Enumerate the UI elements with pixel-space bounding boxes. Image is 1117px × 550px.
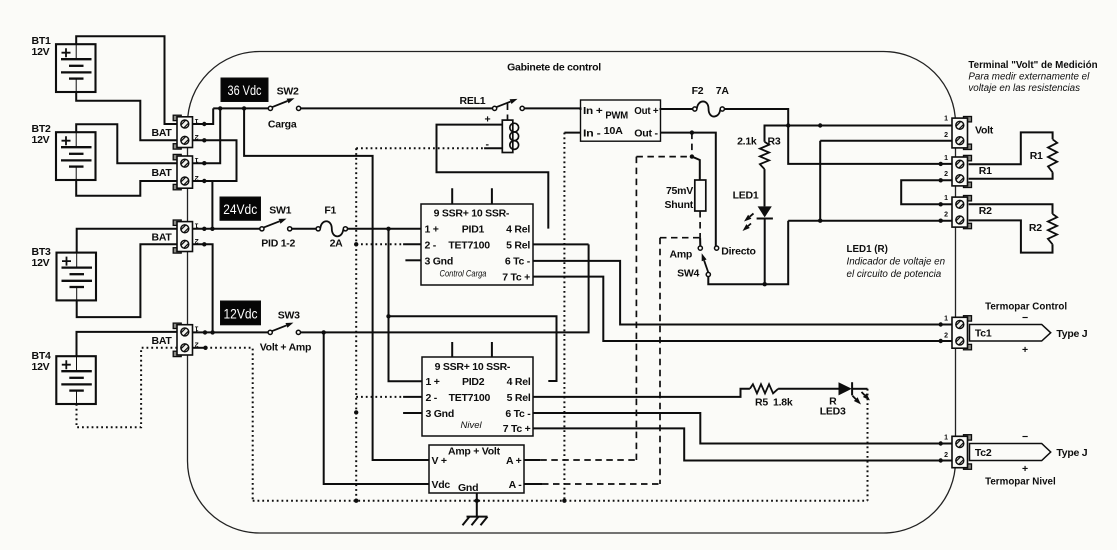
svg-text:2: 2 <box>944 132 948 139</box>
svg-text:Para medir externamente el: Para medir externamente el <box>968 72 1090 83</box>
svg-text:6 Tc -: 6 Tc - <box>505 256 531 268</box>
wire PID2 pin5 to R5 <box>533 389 750 397</box>
svg-text:BAT: BAT <box>152 232 173 244</box>
svg-text:Carga: Carga <box>268 119 297 131</box>
wire BT3- to BAT3-2 <box>77 244 179 317</box>
thermocouple Type J nivel <box>970 444 1051 461</box>
svg-text:1: 1 <box>195 325 199 332</box>
svg-text:2.1k: 2.1k <box>737 136 757 148</box>
svg-text:2: 2 <box>195 341 199 348</box>
wire junction to R1-1 <box>788 126 953 164</box>
wire 36V rail to SW2 <box>213 107 268 109</box>
svg-text:2: 2 <box>195 133 199 140</box>
svg-text:12Vdc: 12Vdc <box>224 307 258 322</box>
svg-text:1: 1 <box>195 222 199 229</box>
module PID1 TET7100 Control Carga <box>421 204 533 285</box>
wire dotted LED3 return <box>867 389 869 501</box>
wire BAT1-1 to 36V rail <box>193 108 214 124</box>
svg-text:9 SSR+ 10 SSR-: 9 SSR+ 10 SSR- <box>435 361 511 373</box>
svg-text:BAT: BAT <box>152 127 173 139</box>
svg-text:4 Rel: 4 Rel <box>506 224 530 236</box>
wire PID1 pin5 to 12V line <box>533 243 589 245</box>
svg-text:SW2: SW2 <box>277 86 299 98</box>
terminal block BAT2 <box>173 154 192 189</box>
wire dashed Out- to shunt top <box>691 133 693 157</box>
svg-text:A +: A + <box>506 455 522 467</box>
svg-text:R5: R5 <box>755 397 768 409</box>
wire 36V branch to V+ pin <box>244 108 429 460</box>
wire LED1 rail to R2-2 <box>788 220 953 222</box>
svg-text:+: + <box>1022 463 1028 475</box>
switch SW4 Amp/Directo <box>698 246 702 250</box>
svg-text:Nivel: Nivel <box>461 420 483 431</box>
cabinet Gabinete de control outline <box>188 52 956 534</box>
svg-text:2: 2 <box>944 211 948 218</box>
svg-text:12V: 12V <box>32 134 50 146</box>
wire R3 to LED1 <box>764 169 766 206</box>
relay REL1 coil <box>507 104 509 120</box>
svg-text:7A: 7A <box>716 85 730 97</box>
svg-text:Volt + Amp: Volt + Amp <box>260 342 311 354</box>
wire SW2 to REL1 <box>301 107 493 109</box>
svg-text:Shunt: Shunt <box>665 199 694 211</box>
module PID2 TET7100 Nivel <box>422 357 533 436</box>
svg-text:Control Carga: Control Carga <box>440 269 487 280</box>
wire dashed A+ stub <box>524 459 540 461</box>
label 12Vdc <box>221 301 261 325</box>
battery BT2 12V <box>56 132 96 180</box>
wire BT1- to BAT1-2 <box>76 92 179 140</box>
wire Volt-2 to R2-2 vertical <box>819 141 821 221</box>
svg-text:24Vdc: 24Vdc <box>223 202 257 217</box>
wire 12V branch down to Vdc pin <box>324 332 429 484</box>
wire PWM Out+ to fuse F2 <box>661 109 693 110</box>
svg-text:36 Vdc: 36 Vdc <box>228 83 262 98</box>
svg-text:2: 2 <box>944 452 948 459</box>
svg-text:SW4: SW4 <box>677 268 699 280</box>
fuse F2 7A <box>693 107 697 111</box>
svg-text:1: 1 <box>195 117 199 124</box>
wire SW1 to fuse F1 <box>292 228 316 230</box>
svg-text:Indicador de voltaje en: Indicador de voltaje en <box>847 257 946 268</box>
svg-text:Termopar Control: Termopar Control <box>985 302 1067 313</box>
svg-text:V +: V + <box>432 455 447 467</box>
wire R5 to LED3 <box>778 388 838 390</box>
label 36 Vdc <box>221 78 268 102</box>
wire PID2 pin3 stub <box>403 412 422 414</box>
svg-text:1: 1 <box>944 116 948 123</box>
svg-text:Out +: Out + <box>634 105 658 117</box>
wire dotted common net x356 <box>355 148 357 500</box>
svg-text:R2: R2 <box>979 205 992 217</box>
svg-text:R1: R1 <box>979 165 992 177</box>
svg-text:Tc1: Tc1 <box>975 328 992 340</box>
svg-text:F2: F2 <box>692 85 704 97</box>
svg-text:Amp + Volt: Amp + Volt <box>448 446 501 458</box>
wire PID1 pin3 stub <box>405 259 421 261</box>
svg-text:4 Rel: 4 Rel <box>507 376 531 388</box>
svg-text:2: 2 <box>195 174 199 181</box>
LED LED1 <box>758 206 772 217</box>
wire REL1 to PWM In+ <box>524 108 580 110</box>
wire dashed shunt bottom to SW4 Amp <box>699 211 701 238</box>
svg-text:Terminal "Volt" de Medición: Terminal "Volt" de Medición <box>968 60 1097 71</box>
resistor R1 external <box>969 132 1053 164</box>
label 24Vdc <box>220 197 261 220</box>
terminal block Tc1 <box>952 316 972 350</box>
wire BAT2-2 jumper down to 24V line <box>211 181 213 229</box>
relay REL1 switch <box>493 106 497 110</box>
wire dotted common bottom rail <box>253 500 868 502</box>
svg-text:PWM: PWM <box>605 110 628 122</box>
wire REL1 coil+ to PID1 pin4 <box>437 125 549 229</box>
wire BAT3-1 to SW1 24V line <box>193 228 260 230</box>
wire shunt top lead <box>692 157 700 180</box>
svg-text:75mV: 75mV <box>666 185 693 197</box>
wire PID1 pin6 to Tc1-1 <box>533 261 953 325</box>
svg-text:In +: In + <box>583 105 603 117</box>
module Amp + Volt <box>429 445 524 493</box>
switch SW2 Carga <box>268 106 272 110</box>
wire dashed A- net to shunt bottom <box>660 237 700 239</box>
svg-text:+: + <box>1022 344 1028 356</box>
wire dotted PWM In- drop x564 <box>563 133 565 501</box>
svg-text:BAT: BAT <box>152 167 173 179</box>
wire BAT4-1 to SW3 12V line <box>193 331 269 333</box>
terminal block Tc2 <box>952 435 972 470</box>
svg-text:1 +: 1 + <box>425 224 439 236</box>
wire PID1 pin7 to Tc1-2 <box>533 277 953 341</box>
wire dotted to PID2 pin2 <box>356 396 403 398</box>
svg-text:2: 2 <box>944 332 948 339</box>
wire BAT1-2 jumper to BAT2-2 <box>193 140 237 181</box>
svg-text:BAT: BAT <box>152 335 173 347</box>
resistor R3 2.1k <box>760 142 769 169</box>
svg-text:10A: 10A <box>604 125 624 137</box>
svg-text:R1: R1 <box>1030 150 1043 162</box>
wire BT2+ to BAT2-1 <box>76 124 179 163</box>
svg-text:REL1: REL1 <box>460 95 486 107</box>
wire BT3+ to BAT3-1 <box>77 229 179 253</box>
resistor R5 1.8k <box>750 384 778 393</box>
svg-text:2A: 2A <box>330 238 344 250</box>
svg-text:1: 1 <box>944 155 948 162</box>
LED LED3 <box>839 382 852 395</box>
svg-text:−: − <box>1022 312 1028 324</box>
svg-text:R3: R3 <box>768 136 781 148</box>
svg-text:1 +: 1 + <box>426 376 440 388</box>
wire PWM Out- to SW4 Directo <box>661 133 716 246</box>
svg-text:7 Tc +: 7 Tc + <box>502 272 530 284</box>
wire dashed A+ net to shunt top <box>636 156 692 158</box>
svg-text:2 -: 2 - <box>426 392 438 404</box>
svg-text:PID1: PID1 <box>462 224 485 236</box>
shunt 75mV <box>695 180 706 211</box>
svg-text:2: 2 <box>944 171 948 178</box>
svg-text:PID2: PID2 <box>462 376 485 388</box>
battery BT3 12V <box>57 253 97 301</box>
svg-text:12V: 12V <box>32 46 50 58</box>
terminal block BAT1 <box>173 115 192 149</box>
wire REL1 coil- stub <box>484 147 502 149</box>
wire PID2 pin6 to Tc2-1 <box>533 413 953 444</box>
wire PID2 pin7 to Tc2-2 <box>533 428 953 460</box>
wire BT4+ to BAT4-1 <box>77 332 180 356</box>
terminal block BAT4 <box>173 323 192 357</box>
wire PWM In- stub <box>564 132 580 134</box>
svg-text:5 Rel: 5 Rel <box>506 240 530 252</box>
svg-text:1: 1 <box>944 434 948 441</box>
wire BT4- dotted to BAT4-2 <box>77 348 180 428</box>
terminal block R2 <box>952 196 972 229</box>
svg-text:5 Rel: 5 Rel <box>507 392 531 404</box>
svg-text:LED1 (R): LED1 (R) <box>847 244 888 255</box>
thermocouple Type J control <box>970 325 1051 342</box>
svg-text:TET7100: TET7100 <box>449 392 491 404</box>
svg-text:Type J: Type J <box>1056 447 1087 459</box>
svg-text:12V: 12V <box>32 361 50 373</box>
resistor R2 external <box>969 204 1053 214</box>
svg-text:2: 2 <box>195 237 199 244</box>
wire dotted to PID1 pin2 <box>356 243 403 245</box>
svg-text:R2: R2 <box>1029 222 1042 234</box>
wire BAT3-2 jumper down to 12V line <box>193 244 213 332</box>
wire BAT2-1 jumper to 36V rail <box>193 108 221 163</box>
fuse F1 2A <box>316 227 320 231</box>
terminal block R1 <box>952 155 972 187</box>
wire 24V branch to PID2 pin4 <box>389 316 557 381</box>
wire BAT4-2 dotted to common rail <box>193 347 206 349</box>
svg-text:7 Tc +: 7 Tc + <box>503 423 531 435</box>
terminal block BAT3 <box>173 220 192 253</box>
svg-text:1.8k: 1.8k <box>773 397 793 409</box>
svg-text:Tc2: Tc2 <box>975 447 992 459</box>
svg-text:Directo: Directo <box>721 246 755 258</box>
svg-text:6 Tc -: 6 Tc - <box>505 408 531 420</box>
wire 24V riser to PID2 pin1 <box>389 229 423 381</box>
svg-text:el circuito de potencia: el circuito de potencia <box>847 269 942 280</box>
wire SW3 12V line to PID1 5Rel riser <box>301 244 589 332</box>
wire F1 to PID1 pin1 <box>348 228 422 230</box>
wire F2 to R3 junction <box>724 109 788 126</box>
svg-text:3 Gnd: 3 Gnd <box>425 256 454 268</box>
switch SW3 Volt + Amp <box>268 330 272 334</box>
battery BT4 12V <box>56 356 96 404</box>
svg-text:TET7100: TET7100 <box>448 240 490 252</box>
switch SW1 PID 1-2 <box>260 227 264 231</box>
wire dashed A- stub <box>524 483 542 485</box>
svg-text:Termopar Nivel: Termopar Nivel <box>985 477 1056 488</box>
svg-text:In -: In - <box>583 128 601 140</box>
svg-text:PID 1-2: PID 1-2 <box>261 238 295 250</box>
svg-text:F1: F1 <box>324 205 336 217</box>
wire Volt-2 line <box>820 140 953 142</box>
svg-text:3 Gnd: 3 Gnd <box>426 408 455 420</box>
svg-text:Vdc: Vdc <box>432 479 451 491</box>
terminal block Volt <box>952 117 972 150</box>
svg-text:Out -: Out - <box>634 128 658 140</box>
svg-text:−: − <box>1022 431 1028 443</box>
svg-text:SW1: SW1 <box>269 205 291 217</box>
svg-text:LED3: LED3 <box>820 406 846 418</box>
svg-text:12V: 12V <box>32 257 50 269</box>
svg-text:LED1: LED1 <box>733 190 759 202</box>
wire BT1+ to BAT1-1 <box>76 36 179 124</box>
battery BT1 12V <box>56 44 96 92</box>
svg-text:1: 1 <box>944 195 948 202</box>
ground Gnd <box>476 493 478 517</box>
svg-text:voltaje en las resistencias: voltaje en las resistencias <box>968 83 1080 94</box>
svg-text:Gabinete de control: Gabinete de control <box>507 62 601 74</box>
module PWM 10A <box>581 100 661 141</box>
wire dotted to REL1 coil minus <box>356 147 484 149</box>
svg-text:Volt: Volt <box>975 125 994 137</box>
svg-text:A -: A - <box>509 479 523 491</box>
svg-text:1: 1 <box>195 156 199 163</box>
svg-text:2 -: 2 - <box>425 240 437 252</box>
svg-text:9 SSR+ 10 SSR-: 9 SSR+ 10 SSR- <box>434 208 510 220</box>
svg-text:Gnd: Gnd <box>458 482 478 494</box>
wire jumper R1-2 to R2-1 <box>901 180 953 204</box>
wire BT2- to BAT2-2 <box>76 180 179 196</box>
svg-text:Type J: Type J <box>1056 328 1087 340</box>
svg-text:SW3: SW3 <box>278 310 300 322</box>
wire SW4 common to LED1 rail <box>708 221 788 285</box>
svg-text:1: 1 <box>944 315 948 322</box>
wire R3 top rail to Volt-1 <box>765 126 954 142</box>
svg-text:Amp: Amp <box>670 249 693 261</box>
